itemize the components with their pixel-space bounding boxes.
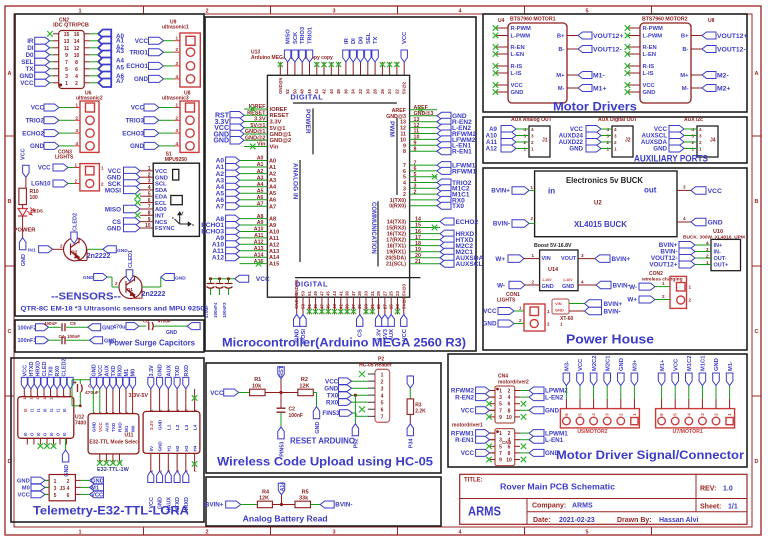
svg-text:TITLE:: TITLE: <box>464 478 483 484</box>
capacitor C8 470uF (telemetry) <box>74 381 99 396</box>
svg-text:H2: H2 <box>175 445 180 451</box>
svg-text:37: 37 <box>351 291 356 296</box>
svg-text:2: 2 <box>689 298 692 303</box>
svg-text:3: 3 <box>614 133 617 138</box>
svg-text:39: 39 <box>345 291 350 296</box>
svg-text:1: 1 <box>662 281 665 286</box>
svg-text:B+: B+ <box>557 34 565 40</box>
svg-text:A3: A3 <box>269 178 276 184</box>
net flag P34 below R3 <box>407 424 415 448</box>
IC U8 BTS7960 MOTOR2 body <box>640 23 691 103</box>
svg-text:4: 4 <box>75 74 78 80</box>
title block border <box>460 474 747 524</box>
svg-text:1: 1 <box>381 372 384 378</box>
svg-text:BTS7960 MOTOR2: BTS7960 MOTOR2 <box>642 17 688 23</box>
net labels and no-connects for S1 MPU9250 <box>105 167 141 232</box>
svg-text:4: 4 <box>531 127 534 132</box>
IC U4 left pins R-PWM L-PWM R-EN L-EN R-IS L-IS VCC GND <box>493 25 531 96</box>
section box Motor Drivers <box>483 14 747 112</box>
svg-text:2: 2 <box>618 413 623 416</box>
svg-text:Hassan Alvi: Hassan Alvi <box>659 517 698 524</box>
svg-text:5V: 5V <box>149 445 154 452</box>
svg-text:TX: TX <box>25 66 34 73</box>
svg-text:6: 6 <box>659 413 664 416</box>
wires XT-60 to BVIN flags <box>569 304 585 312</box>
svg-text:1/1: 1/1 <box>728 504 738 511</box>
svg-text:4: 4 <box>591 413 596 416</box>
svg-text:13: 13 <box>30 396 34 400</box>
svg-text:M1C2: M1C2 <box>687 356 693 371</box>
svg-text:4: 4 <box>175 141 178 146</box>
svg-text:RXD: RXD <box>184 365 190 377</box>
svg-text:TXD: TXD <box>111 365 117 376</box>
IC U12 labels <box>75 415 86 427</box>
svg-text:GND@1: GND@1 <box>270 132 293 138</box>
svg-text:49: 49 <box>313 291 318 296</box>
svg-text:B-: B- <box>558 47 564 53</box>
svg-text:OUT-: OUT- <box>714 256 727 262</box>
svg-text:GND: GND <box>555 308 564 313</box>
svg-text:GND: GND <box>653 146 667 153</box>
svg-text:LIGHTS: LIGHTS <box>497 298 516 304</box>
svg-text:IN-: IN- <box>714 250 722 256</box>
net labels left CN5 <box>451 430 495 463</box>
svg-text:U10: U10 <box>713 229 723 235</box>
section box Analog Battery Read <box>206 477 441 526</box>
svg-text:ECL: ECL <box>155 201 167 207</box>
svg-text:2: 2 <box>158 410 162 412</box>
net labels left CN4 <box>451 387 495 420</box>
connector XT-60 labels <box>560 316 574 327</box>
svg-text:9: 9 <box>499 458 502 464</box>
svg-text:AUX Analog OUT: AUX Analog OUT <box>511 117 552 123</box>
section box Telemetry <box>11 358 204 522</box>
svg-text:A5: A5 <box>257 188 264 194</box>
svg-text:M1C1: M1C1 <box>701 355 707 371</box>
svg-text:26: 26 <box>380 89 385 94</box>
svg-text:A1: A1 <box>269 165 276 171</box>
svg-text:2: 2 <box>148 172 151 178</box>
svg-text:I0: I0 <box>23 432 28 436</box>
svg-text:VCC: VCC <box>673 358 679 371</box>
svg-text:DIGITAL: DIGITAL <box>295 280 328 289</box>
svg-text:2n2222: 2n2222 <box>142 291 166 298</box>
svg-text:GND: GND <box>158 364 164 376</box>
svg-text:2: 2 <box>101 182 104 187</box>
svg-text:VCC: VCC <box>98 365 104 377</box>
svg-text:2: 2 <box>115 281 118 286</box>
svg-text:IR: IR <box>27 38 34 45</box>
wire GND to R3 <box>409 388 411 399</box>
svg-text:A2: A2 <box>269 172 276 178</box>
svg-text:SEL: SEL <box>366 32 372 44</box>
svg-text:TX0: TX0 <box>452 203 464 210</box>
pin header J2 body and pins <box>606 126 633 157</box>
svg-text:6: 6 <box>148 198 151 204</box>
svg-text:3: 3 <box>75 128 78 133</box>
svg-text:MOSI: MOSI <box>105 187 121 194</box>
svg-text:Drawn By:: Drawn By: <box>617 517 652 524</box>
resistor R3 2.2K <box>407 399 426 415</box>
svg-text:1: 1 <box>530 185 533 190</box>
svg-text:RXD: RXD <box>118 422 123 432</box>
svg-text:1: 1 <box>101 166 104 171</box>
IC U2 Electronics 5v BUCK body <box>535 171 677 237</box>
svg-text:L-EN1: L-EN1 <box>545 437 564 444</box>
svg-text:4: 4 <box>176 409 180 412</box>
svg-text:U11: U11 <box>125 433 134 439</box>
svg-text:AUXSCL: AUXSCL <box>456 261 483 268</box>
svg-text:BVIN-: BVIN- <box>335 502 352 509</box>
svg-text:A9: A9 <box>269 223 276 229</box>
connector CON1 pins and net labels VCC GND <box>483 306 551 328</box>
svg-text:A3: A3 <box>116 48 125 55</box>
svg-text:R-EN1: R-EN1 <box>452 149 472 156</box>
svg-text:VCC: VCC <box>402 31 408 44</box>
svg-text:1.0: 1.0 <box>723 486 733 493</box>
svg-text:8: 8 <box>75 60 78 66</box>
svg-text:LGN10: LGN10 <box>31 182 51 188</box>
svg-text:MPU9250: MPU9250 <box>165 157 187 163</box>
svg-text:5: 5 <box>381 401 384 407</box>
svg-text:A6: A6 <box>269 198 276 204</box>
U13 PWM pins 7-2 with net labels TRIO2 M1C2 M1C1 <box>403 160 476 198</box>
net flag CLED2 above Q2 <box>71 213 79 244</box>
svg-text:y: y <box>182 211 184 215</box>
svg-text:GND: GND <box>619 358 625 371</box>
svg-text:M0: M0 <box>131 425 136 432</box>
svg-text:2: 2 <box>74 178 77 183</box>
IC U15 bottom pins with net flags VCC GND HAUX HTXD HRXD <box>148 453 198 512</box>
svg-text:BTS7960 MOTOR1: BTS7960 MOTOR1 <box>510 17 556 23</box>
svg-text:23: 23 <box>395 291 400 296</box>
net label VCC (U2 pin 3) <box>677 185 722 195</box>
svg-text:1: 1 <box>727 413 732 416</box>
svg-text:12K: 12K <box>259 496 269 502</box>
svg-text:W-: W- <box>497 283 505 290</box>
IC U8 labels <box>642 17 715 25</box>
svg-text:BVIN-: BVIN- <box>493 221 510 228</box>
svg-text:W+: W+ <box>627 297 637 304</box>
svg-text:IDC QTR/PCB: IDC QTR/PCB <box>53 23 89 29</box>
net labels IR DI D0 SEL TX GND VCC (CN2 left) <box>20 37 54 87</box>
Q1 base net flag GND <box>83 274 118 287</box>
svg-text:4: 4 <box>683 216 686 221</box>
sensor module S1 pins and pin names <box>140 166 175 232</box>
svg-text:VCC: VCC <box>131 105 145 112</box>
svg-text:M1: M1 <box>124 425 129 432</box>
svg-text:RST: RST <box>279 365 285 377</box>
IC U12 internal gate labels <box>23 408 67 436</box>
IC U11 E32-TTL body <box>88 414 139 454</box>
svg-text:VIN: VIN <box>542 256 551 262</box>
svg-text:10: 10 <box>506 415 512 421</box>
resistor R10 <box>19 188 27 204</box>
svg-text:1: 1 <box>78 530 81 536</box>
svg-text:I0: I0 <box>62 408 67 412</box>
svg-text:H1: H1 <box>166 445 171 451</box>
svg-text:GND@2: GND@2 <box>245 135 266 141</box>
wire junction to C2 <box>280 393 282 408</box>
svg-text:4: 4 <box>581 280 584 285</box>
svg-text:W+: W+ <box>495 256 505 263</box>
svg-text:U2: U2 <box>594 201 602 207</box>
resistor R2 12K <box>298 377 314 396</box>
svg-text:M2+: M2+ <box>717 85 730 92</box>
net flag RST top (wireless) <box>278 365 285 392</box>
svg-text:L-IS: L-IS <box>511 71 522 77</box>
svg-text:Telemetry-E32-TTL-LORA: Telemetry-E32-TTL-LORA <box>33 504 189 518</box>
svg-text:25: 25 <box>389 291 394 296</box>
wire R5 to BVIN- flag <box>311 504 321 506</box>
svg-text:J4: J4 <box>710 138 716 144</box>
svg-text:400nF: 400nF <box>44 321 57 326</box>
svg-text:INT: INT <box>155 214 165 220</box>
connector U6 ultrasonic2 labels <box>76 91 103 102</box>
svg-text:MISO: MISO <box>105 206 121 213</box>
wire VCC to R1 <box>239 392 250 394</box>
svg-text:L-IS: L-IS <box>643 71 654 77</box>
connector U5/MOTOR2 body and pins <box>560 409 639 428</box>
svg-text:VCC: VCC <box>461 408 475 415</box>
svg-text:A7: A7 <box>269 204 276 210</box>
svg-text:M1-: M1- <box>593 72 605 79</box>
svg-text:5: 5 <box>148 191 151 197</box>
svg-text:E32-TTL Mode Selec: E32-TTL Mode Selec <box>89 440 138 446</box>
net label W- (U14 pin 2) <box>497 280 540 290</box>
svg-text:3: 3 <box>65 74 68 80</box>
svg-text:3: 3 <box>148 179 151 185</box>
svg-text:GND: GND <box>155 175 168 181</box>
svg-text:9: 9 <box>148 217 151 223</box>
svg-text:GND: GND <box>542 284 554 290</box>
wire R10 to LED5 <box>22 205 24 208</box>
svg-text:44: 44 <box>314 89 319 94</box>
svg-text:3: 3 <box>531 133 534 138</box>
svg-text:7: 7 <box>499 451 502 457</box>
svg-text:P52: P52 <box>354 439 360 449</box>
svg-text:A4: A4 <box>116 58 125 65</box>
svg-text:470uF: 470uF <box>204 305 209 318</box>
svg-text:Motor Driver Signal/Connector: Motor Driver Signal/Connector <box>556 450 745 462</box>
net label W+ (U14 pin 1) <box>495 253 539 263</box>
svg-text:IN1: IN1 <box>28 248 36 254</box>
net labels A0-A7 <box>116 33 125 85</box>
connector CN4 motordriver2 header text <box>498 374 529 386</box>
connector U8 ultrasonic3 body <box>180 101 199 152</box>
net flag PIN52 below HC-05 <box>352 424 360 448</box>
sensor module S1 MPU9250 body <box>153 163 199 236</box>
svg-text:RXD: RXD <box>118 365 124 377</box>
svg-text:A8: A8 <box>257 214 264 220</box>
svg-text:IR: IR <box>344 37 350 44</box>
IC U12 top pins with net flags VCC HTXD HRXD CLED TX0 RX0 CLED2 <box>21 358 73 399</box>
svg-text:GND: GND <box>117 248 128 254</box>
U13 ANALOG IN label and separator <box>292 163 299 200</box>
svg-text:4: 4 <box>148 185 151 191</box>
svg-text:L-PWM: L-PWM <box>643 34 663 40</box>
svg-text:R1: R1 <box>254 377 261 383</box>
svg-text:9: 9 <box>56 396 60 398</box>
IC U13 Arduino MEGA 2560 body <box>267 75 409 297</box>
svg-text:VOUT12+: VOUT12+ <box>593 33 623 40</box>
svg-text:52: 52 <box>285 89 290 94</box>
svg-text:5: 5 <box>499 402 502 408</box>
svg-text:M+: M+ <box>556 73 565 79</box>
svg-text:VIN: VIN <box>555 301 562 306</box>
wire R1 to junction <box>265 391 298 394</box>
svg-text:COMMUNICATION: COMMUNICATION <box>370 202 376 254</box>
resistor R4 12K <box>257 490 272 508</box>
S1 MPU9250 chip drawing large square <box>171 196 183 205</box>
svg-text:8: 8 <box>403 149 406 155</box>
frame row letters right <box>755 71 759 465</box>
svg-text:VCC: VCC <box>578 358 584 371</box>
net label BVIN- (battery read) <box>320 501 352 509</box>
svg-text:TRIO2: TRIO2 <box>25 118 44 125</box>
svg-text:6: 6 <box>125 412 129 414</box>
svg-text:LIGHTS: LIGHTS <box>55 155 74 161</box>
svg-text:46: 46 <box>307 89 312 94</box>
svg-text:motordriver1: motordriver1 <box>452 423 483 429</box>
svg-text:2: 2 <box>508 389 511 395</box>
resistor R5 33k <box>295 490 311 508</box>
svg-text:5: 5 <box>54 493 57 499</box>
IC U4 right pins B+ B- M+ M- with net labels <box>556 32 623 92</box>
net label BVIN+ (XT-60) <box>585 300 623 308</box>
svg-text:28: 28 <box>373 89 378 94</box>
svg-text:TX: TX <box>373 36 379 44</box>
svg-text:A: A <box>8 71 12 77</box>
svg-text:POWER: POWER <box>304 109 311 134</box>
svg-text:4: 4 <box>381 394 384 400</box>
svg-text:2: 2 <box>519 318 522 323</box>
svg-text:2.2K: 2.2K <box>415 409 426 415</box>
svg-text:Sheet:: Sheet: <box>700 504 721 511</box>
svg-text:U4: U4 <box>498 18 505 24</box>
svg-text:B-: B- <box>682 47 688 53</box>
IC U14 labels <box>534 243 577 290</box>
connector U8 pins, wires and net labels VCC TRIO3 ECHO3 GND <box>122 103 180 151</box>
transistor Q1 2n2222 <box>119 276 142 299</box>
svg-text:3: 3 <box>381 387 384 393</box>
svg-text:M1: M1 <box>124 369 130 377</box>
svg-text:10: 10 <box>74 53 80 59</box>
svg-text:Q2: Q2 <box>71 249 78 255</box>
svg-text:2: 2 <box>662 294 665 299</box>
svg-text:2: 2 <box>205 530 208 536</box>
svg-text:A12: A12 <box>269 242 279 248</box>
svg-text:VCC: VCC <box>483 308 497 315</box>
wire R2 to GND flag <box>313 393 316 407</box>
connector J3 net labels GND M0 VCC GND M1 VCC <box>17 477 104 499</box>
svg-text:1: 1 <box>148 166 151 172</box>
connector U9 ultrasonic1 labels <box>162 20 189 31</box>
svg-text:GND: GND <box>17 479 30 485</box>
svg-text:C5: C5 <box>70 321 76 326</box>
svg-text:GND: GND <box>166 330 178 336</box>
svg-text:FIN53: FIN53 <box>322 410 340 417</box>
svg-text:CLED2: CLED2 <box>73 213 79 231</box>
svg-text:A8: A8 <box>269 217 276 223</box>
svg-text:VCC: VCC <box>325 378 339 385</box>
connector J3 body <box>44 475 81 501</box>
transistor Q2 2n2222 <box>64 238 87 261</box>
svg-text:22: 22 <box>394 89 399 94</box>
svg-text:Power House: Power House <box>566 333 654 347</box>
capacitor C6 470uF row <box>113 319 200 337</box>
svg-text:J3: J3 <box>60 486 66 492</box>
svg-text:BVIN+: BVIN+ <box>604 301 623 308</box>
svg-text:A3: A3 <box>257 175 264 181</box>
svg-text:1: 1 <box>92 412 96 414</box>
svg-text:7: 7 <box>381 415 384 421</box>
connector CON2 pins and net labels W- W+ <box>627 281 691 304</box>
svg-text:21(SCL): 21(SCL) <box>386 262 406 268</box>
svg-text:z: z <box>172 216 174 220</box>
Q2 base net flag IN1 <box>28 244 63 254</box>
connector U6 pins, wires and net labels VCC TRIO2 ECHO2 GND <box>22 103 80 151</box>
svg-text:A14: A14 <box>269 255 280 261</box>
svg-text:Analog Battery Read: Analog Battery Read <box>243 515 328 524</box>
svg-text:D: D <box>755 459 759 465</box>
svg-text:12K: 12K <box>299 383 309 389</box>
svg-text:R2: R2 <box>301 377 308 383</box>
svg-text:GND: GND <box>714 358 720 371</box>
svg-text:R-PWM: R-PWM <box>643 26 663 32</box>
U13 internal separator under DIGITAL <box>293 102 397 104</box>
svg-text:A7: A7 <box>257 202 264 208</box>
svg-text:IOREF: IOREF <box>270 107 288 113</box>
wires and net flags M3- VCC M2C2 M2C1 GND M3+ <box>563 355 639 409</box>
svg-text:RESET ARDUINO: RESET ARDUINO <box>290 437 355 446</box>
connector CON1 LIGHTS labels <box>497 292 520 304</box>
svg-text:VCC: VCC <box>210 390 224 397</box>
IC U4 labels <box>498 17 556 25</box>
svg-text:24: 24 <box>387 89 392 94</box>
IC U13 reference labels <box>251 50 333 62</box>
net flag VCC bottom left of U13 <box>235 275 270 283</box>
S1 MPU9250 axis arrows <box>175 212 192 226</box>
svg-text:2: 2 <box>175 115 178 120</box>
svg-text:2n2222: 2n2222 <box>87 253 111 260</box>
svg-text:M0: M0 <box>22 486 30 492</box>
svg-text:in: in <box>548 187 555 196</box>
svg-text:Electronics 5v BUCK: Electronics 5v BUCK <box>566 176 643 185</box>
section box Wireless Code Upload <box>206 363 441 473</box>
svg-text:GND@2: GND@2 <box>270 138 292 144</box>
svg-text:4: 4 <box>67 486 70 492</box>
svg-text:19: 19 <box>415 247 421 253</box>
svg-text:9: 9 <box>499 415 502 421</box>
svg-text:C4: C4 <box>59 334 65 339</box>
svg-text:2: 2 <box>75 115 78 120</box>
IC U4 BTS7960 MOTOR1 body <box>508 23 567 103</box>
svg-text:1: 1 <box>75 103 78 108</box>
svg-text:1: 1 <box>531 253 534 258</box>
connector CN2 pin numbers and stubs <box>53 32 90 87</box>
svg-text:AUX: AUX <box>104 365 110 377</box>
svg-text:7: 7 <box>193 470 197 472</box>
power LED rail: VCC flag top <box>21 148 30 177</box>
svg-text:SDA: SDA <box>155 188 168 194</box>
svg-text:HTXD: HTXD <box>29 362 35 377</box>
svg-text:2: 2 <box>75 81 78 87</box>
svg-text:VOUT12+: VOUT12+ <box>649 262 677 269</box>
svg-text:B+: B+ <box>681 34 689 40</box>
svg-text:3: 3 <box>499 395 502 401</box>
svg-text:TRIO1: TRIO1 <box>308 26 314 44</box>
